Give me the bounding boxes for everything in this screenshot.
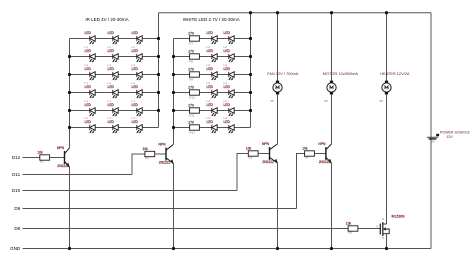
svg-text:R12: R12 xyxy=(189,131,195,135)
wire gate lead xyxy=(358,228,380,230)
LED L1-18 (IR) xyxy=(132,116,143,133)
LED L1-6 (IR) xyxy=(132,45,143,63)
wire Q2 base riser from bus xyxy=(132,154,145,175)
svg-text:2N2222: 2N2222 xyxy=(159,160,171,164)
svg-text:2N2222: 2N2222 xyxy=(57,164,69,168)
svg-text:270: 270 xyxy=(188,85,194,89)
wire Q3 collector xyxy=(277,95,279,144)
LED L1-1 (IR) xyxy=(85,31,96,45)
junction GND x Q3 emitter xyxy=(276,247,279,250)
LED L1-8 (IR) xyxy=(108,63,119,80)
LED L2-10 (white) xyxy=(224,99,235,116)
wire D11 bus xyxy=(23,174,133,176)
svg-text:LED: LED xyxy=(207,31,214,35)
LED L2-7 (white) xyxy=(207,81,218,98)
svg-text:NPN: NPN xyxy=(159,143,167,147)
svg-text:LED: LED xyxy=(224,31,231,35)
wire WHITE row 6 xyxy=(174,127,251,129)
wire D10 bus xyxy=(23,190,238,192)
LED L1-13 (IR) xyxy=(85,99,96,116)
LED L1-16 (IR) xyxy=(85,116,96,133)
junction WHITE left bus row 5 xyxy=(172,109,175,112)
svg-text:IR LED 4V / 20-30mA: IR LED 4V / 20-30mA xyxy=(85,17,128,22)
transistor Q4 2N2222 xyxy=(318,142,332,164)
svg-text:10k: 10k xyxy=(346,221,352,225)
resistor R5 10k (MOSFET gate) xyxy=(346,221,358,234)
wire Q2 collector xyxy=(173,128,175,145)
svg-text:LED: LED xyxy=(132,31,139,35)
wire Q3 base riser from bus xyxy=(237,154,248,191)
svg-text:10k: 10k xyxy=(143,147,149,151)
motor M2 motor xyxy=(323,71,359,103)
wire WHITE row 3 xyxy=(174,74,251,76)
svg-text:LED: LED xyxy=(224,67,231,71)
resistor R8 270 (white row 2) xyxy=(188,49,199,63)
junction GND x Q4 emitter xyxy=(330,247,333,250)
junction rail x motor line xyxy=(330,11,333,14)
svg-text:IRL510N: IRL510N xyxy=(392,214,406,218)
resistor R11 270 (white row 5) xyxy=(188,103,199,117)
svg-text:D10: D10 xyxy=(12,188,21,193)
LED L1-4 (IR) xyxy=(85,45,96,63)
junction IR left bus row 4 xyxy=(68,91,71,94)
svg-text:R5: R5 xyxy=(348,231,352,235)
svg-text:LED: LED xyxy=(108,49,115,53)
junction WHITE left bus row 4 xyxy=(172,91,175,94)
svg-text:D: D xyxy=(382,217,385,221)
wire IR row 6 xyxy=(70,127,159,129)
svg-text:LED: LED xyxy=(108,67,115,71)
svg-text:LED: LED xyxy=(108,120,115,124)
svg-text:R7: R7 xyxy=(189,42,193,46)
LED L2-1 (white) xyxy=(207,31,218,45)
junction WHITE right bus row 1 xyxy=(249,37,252,40)
svg-text:NPN: NPN xyxy=(57,146,65,150)
wire D9 bus xyxy=(23,208,297,210)
resistor R3 10k (Q3 base) xyxy=(246,146,258,159)
svg-text:LED: LED xyxy=(207,85,214,89)
wire Q2 emitter to GND xyxy=(173,164,175,249)
svg-text:ZP: ZP xyxy=(270,99,274,103)
svg-text:S: S xyxy=(382,236,384,240)
junction WHITE left bus row 2 xyxy=(172,55,175,58)
svg-text:LED: LED xyxy=(85,31,92,35)
svg-text:G: G xyxy=(376,225,379,229)
svg-text:LED: LED xyxy=(108,85,115,89)
svg-text:WHITE LED 2.7V / 20-30mA: WHITE LED 2.7V / 20-30mA xyxy=(183,17,240,22)
wire M1 fan feed from rail xyxy=(277,13,279,81)
svg-text:D8: D8 xyxy=(14,226,20,231)
LED L1-14 (IR) xyxy=(108,99,119,116)
wire MOSFET source to GND xyxy=(386,234,388,249)
wire motor M2 to Q4 collector xyxy=(331,95,333,144)
LED L2-9 (white) xyxy=(207,99,218,116)
wire WHITE row 5 xyxy=(174,110,251,112)
junction GND x Q2 emitter xyxy=(172,247,175,250)
LED L1-15 (IR) xyxy=(132,99,143,116)
wire WHITE row 1 xyxy=(174,38,251,40)
resistor R7 270 (white row 1) xyxy=(188,31,199,45)
svg-text:270: 270 xyxy=(188,120,194,124)
svg-text:HEATER 12V/2A: HEATER 12V/2A xyxy=(380,71,410,76)
transistor Q2 2N2222 xyxy=(159,143,174,165)
junction GND x Q1 emitter xyxy=(68,247,71,250)
svg-text:GND: GND xyxy=(10,246,21,251)
svg-text:2N2222: 2N2222 xyxy=(262,160,274,164)
wire fan motor to Q3 collector xyxy=(277,95,279,144)
svg-text:LED: LED xyxy=(132,49,139,53)
svg-text:R1: R1 xyxy=(40,160,44,164)
junction WHITE right bus row 5 xyxy=(249,109,252,112)
LED L2-5 (white) xyxy=(207,63,218,80)
svg-text:12V: 12V xyxy=(430,139,436,143)
LED L1-2 (IR) xyxy=(108,31,119,45)
LED L1-12 (IR) xyxy=(132,81,143,98)
svg-text:ZP: ZP xyxy=(324,99,328,103)
junction IR left bus row 6 xyxy=(68,126,71,129)
LED L2-8 (white) xyxy=(224,81,235,98)
junction IR right bus row 3 xyxy=(157,73,160,76)
svg-text:LED: LED xyxy=(207,49,214,53)
LED L1-3 (IR) xyxy=(132,31,143,45)
junction rail x white bus xyxy=(249,11,252,14)
wire WHITE right bus xyxy=(250,13,252,128)
wire GND bus xyxy=(23,248,432,250)
svg-text:12V: 12V xyxy=(446,135,453,139)
transistor Q3 2N2222 xyxy=(262,142,278,164)
transistor Q1 2N2222 xyxy=(57,146,70,168)
LED L2-2 (white) xyxy=(224,31,235,45)
wire M3 heater feed from rail xyxy=(386,13,388,81)
svg-text:R2: R2 xyxy=(145,156,149,160)
svg-text:R9: R9 xyxy=(189,78,193,82)
svg-text:R10: R10 xyxy=(189,96,195,100)
svg-text:D12: D12 xyxy=(12,155,21,160)
junction WHITE left bus row 3 xyxy=(172,73,175,76)
svg-text:LED: LED xyxy=(85,49,92,53)
wire Q4 base riser from bus xyxy=(297,154,305,209)
svg-text:D9: D9 xyxy=(14,206,20,211)
svg-text:10k: 10k xyxy=(302,146,308,150)
wire top 12V rail xyxy=(159,12,432,14)
junction WHITE right bus row 4 xyxy=(249,91,252,94)
junction WHITE right bus row 2 xyxy=(249,55,252,58)
LED L1-9 (IR) xyxy=(132,63,143,80)
svg-text:LED: LED xyxy=(224,49,231,53)
svg-text:LED: LED xyxy=(85,85,92,89)
junction IR left bus row 3 xyxy=(68,73,71,76)
svg-text:NPN: NPN xyxy=(262,142,270,146)
MOSFET Q5 IRL510N xyxy=(376,214,405,240)
resistor R9 270 (white row 3) xyxy=(188,67,199,81)
LED L1-5 (IR) xyxy=(108,45,119,63)
LED L2-4 (white) xyxy=(224,45,235,63)
wire M2 motor feed from rail xyxy=(331,13,333,81)
svg-text:LED: LED xyxy=(207,67,214,71)
wire Q4 base lead xyxy=(314,153,326,155)
svg-text:LED: LED xyxy=(108,103,115,107)
wire IR row 3 xyxy=(70,74,159,76)
motor M3 heater xyxy=(379,71,410,103)
wire WHITE row 2 xyxy=(174,56,251,58)
wire D12 bus xyxy=(23,157,40,159)
wire Q4 collector xyxy=(331,95,333,144)
svg-text:LED: LED xyxy=(224,103,231,107)
svg-text:10k: 10k xyxy=(246,146,252,150)
junction IR right bus row 5 xyxy=(157,109,160,112)
svg-text:LED: LED xyxy=(85,103,92,107)
svg-text:LED: LED xyxy=(85,120,92,124)
svg-text:270: 270 xyxy=(188,103,194,107)
svg-text:R4: R4 xyxy=(305,156,309,160)
LED L2-11 (white) xyxy=(207,116,218,133)
resistor R12 270 (white row 6) xyxy=(188,120,199,134)
resistor R4 10k (Q4 base) xyxy=(302,146,314,159)
battery J1 power source xyxy=(427,134,439,144)
LED L1-10 (IR) xyxy=(85,81,96,98)
wire IR left bus xyxy=(69,39,71,128)
wire IR row 1 xyxy=(70,38,159,40)
svg-text:LED: LED xyxy=(132,85,139,89)
wire IR right bus xyxy=(158,13,160,128)
wire heater to MOSFET drain xyxy=(386,95,388,224)
svg-text:270: 270 xyxy=(188,67,194,71)
resistor R2 10k (Q2 base) xyxy=(143,147,155,160)
svg-text:LED: LED xyxy=(207,103,214,107)
resistor R10 270 (white row 4) xyxy=(188,85,199,99)
svg-text:FAN 12V / 700mA: FAN 12V / 700mA xyxy=(267,71,299,76)
svg-text:LED: LED xyxy=(132,67,139,71)
svg-text:R8: R8 xyxy=(189,60,193,64)
wire D8 bus xyxy=(23,228,349,230)
wire power source vertical xyxy=(430,13,432,249)
LED L1-7 (IR) xyxy=(85,63,96,80)
junction rail x heater line xyxy=(385,11,388,14)
svg-text:D11: D11 xyxy=(12,172,20,177)
junction IR right bus row 2 xyxy=(157,55,160,58)
svg-text:ZP: ZP xyxy=(379,99,383,103)
wire IR row 5 xyxy=(70,110,159,112)
wire Q4 emitter to GND xyxy=(331,163,333,248)
wire IR row 2 xyxy=(70,56,159,58)
svg-text:R3: R3 xyxy=(248,156,252,160)
svg-text:LED: LED xyxy=(108,31,115,35)
LED L1-17 (IR) xyxy=(108,116,119,133)
svg-text:LED: LED xyxy=(132,120,139,124)
junction WHITE right bus row 3 xyxy=(249,73,252,76)
wire Q2 base lead xyxy=(155,153,166,155)
resistor R1 10k (Q1 base) xyxy=(37,150,49,163)
svg-text:LED: LED xyxy=(85,67,92,71)
svg-text:LED: LED xyxy=(224,120,231,124)
wire WHITE row 4 xyxy=(174,92,251,94)
svg-text:LED: LED xyxy=(207,120,214,124)
junction IR left bus row 5 xyxy=(68,109,71,112)
junction WHITE left bus row 6 xyxy=(172,126,175,129)
svg-text:NPN: NPN xyxy=(318,142,326,146)
svg-text:LED: LED xyxy=(132,103,139,107)
LED L2-12 (white) xyxy=(224,116,235,133)
wire WHITE left bus xyxy=(173,39,175,128)
junction rail x fan line xyxy=(276,11,279,14)
junction IR right bus row 1 xyxy=(157,37,160,40)
wire Q3 base lead xyxy=(258,153,269,155)
LED L2-3 (white) xyxy=(207,45,218,63)
svg-text:MOTOR 12v/500mA: MOTOR 12v/500mA xyxy=(323,71,359,76)
svg-text:270: 270 xyxy=(188,31,194,35)
svg-text:2N2222: 2N2222 xyxy=(319,160,331,164)
junction IR left bus row 2 xyxy=(68,55,71,58)
label POWER SOURCE xyxy=(440,130,471,139)
svg-text:POWER SOURCE: POWER SOURCE xyxy=(440,130,471,134)
wire Q1 base lead xyxy=(50,157,65,159)
wire IR row 4 xyxy=(70,92,159,94)
svg-text:10k: 10k xyxy=(37,150,43,154)
wire Q3 emitter to GND xyxy=(277,163,279,248)
svg-text:R11: R11 xyxy=(189,114,195,118)
motor M1 fan xyxy=(267,71,299,103)
svg-text:LED: LED xyxy=(224,85,231,89)
wire Q1 emitter to GND xyxy=(69,167,71,248)
wire Q1 collector xyxy=(69,128,71,148)
junction GND x MOSFET source xyxy=(385,247,388,250)
svg-text:270: 270 xyxy=(188,49,194,53)
junction IR right bus row 4 xyxy=(157,91,160,94)
LED L2-6 (white) xyxy=(224,63,235,80)
LED L1-11 (IR) xyxy=(108,81,119,98)
